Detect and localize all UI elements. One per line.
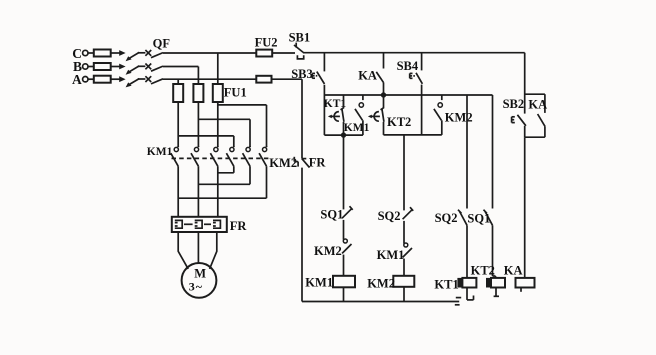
svg-text:KA: KA — [528, 98, 547, 112]
control bottom bus — [302, 301, 459, 303]
svg-text:FU2: FU2 — [255, 35, 278, 49]
svg-text:SB1: SB1 — [289, 30, 311, 44]
coil KT1 — [457, 278, 462, 288]
coil KM2 — [393, 276, 414, 287]
wire drop B to fuse FU1-2 — [197, 67, 199, 85]
svg-text:KM2: KM2 — [269, 156, 297, 170]
wire FR branch lower — [301, 168, 303, 302]
interlock KM1 (NC) — [404, 243, 408, 247]
terminal circle phase C — [83, 50, 88, 55]
wire KM2 c4 to line3 — [233, 166, 235, 173]
wire KA right stub — [544, 94, 546, 113]
KM1 main contact 1 — [177, 146, 179, 147]
pushbutton SB1 (NC stop) — [295, 43, 297, 48]
wire L1 mid — [343, 220, 345, 240]
wire feed KM2 contact 6 — [218, 104, 267, 106]
wire L3 lower — [466, 225, 468, 278]
wire SB3 to rail — [323, 85, 325, 95]
wire KM2 coil to bus — [403, 287, 405, 302]
KM2 main contact 5 — [249, 146, 251, 147]
wire below FU1-3 — [217, 102, 219, 147]
wire feed KM2 contact 5 — [198, 118, 250, 120]
svg-text:KT1: KT1 — [434, 277, 458, 291]
wire C blade to QF — [138, 52, 146, 54]
fuse FU1-2 — [193, 84, 203, 102]
wire KM1 aux to loop bottom — [362, 120, 364, 135]
wire KT1 contact to loop bottom — [343, 122, 345, 135]
svg-text:FR: FR — [230, 219, 248, 233]
wire KM2 aux to mid node — [441, 120, 443, 135]
wire phase B horizontal — [163, 66, 198, 68]
arrow phase C — [119, 50, 125, 56]
FR heater element 1 — [175, 220, 182, 228]
wire phase A horizontal to FU2 lower — [163, 78, 256, 80]
wire below FU1-2 — [197, 102, 199, 147]
wire down to KA coil — [524, 137, 526, 278]
wire C terminal to fuse — [88, 52, 94, 54]
wire C fuse to arrow — [111, 52, 120, 54]
wire SB4 stub — [421, 53, 423, 71]
wire L2 mid — [403, 221, 405, 244]
fuse box phase B — [94, 63, 111, 70]
wire KM2 c5 to line2 — [249, 166, 251, 184]
thermal relay FR box — [172, 217, 227, 232]
wire KA coil stub — [520, 288, 522, 292]
FR heater element 2 — [195, 220, 202, 228]
wire B fuse to arrow — [111, 66, 120, 68]
svg-text:KA: KA — [358, 69, 377, 83]
contact KM1 aux (NO self-hold) — [362, 95, 364, 100]
KM2 main contact 6 — [266, 146, 268, 147]
linkage dashed line — [172, 157, 270, 159]
wire KT2 coil stub — [495, 288, 497, 297]
wire SB2/KA join bottom — [525, 136, 545, 138]
wire FU2 lower to FR branch — [272, 78, 303, 80]
svg-text:KT2: KT2 — [471, 263, 495, 277]
QF fixed contact x mark A — [145, 76, 151, 82]
svg-text:KM1: KM1 — [147, 146, 173, 158]
wire B blade to QF — [138, 65, 146, 67]
wire SB2 lower — [524, 126, 526, 137]
wire FU2 upper to SB1 — [272, 52, 295, 54]
limit switch SQ1 (NO) — [485, 212, 492, 226]
wire KT2 to mid node — [383, 122, 385, 135]
wire A fuse to arrow — [111, 78, 120, 80]
wire rail end down — [492, 95, 494, 209]
wire KA stub — [383, 53, 385, 69]
pushbutton SB3 (NO start) — [317, 72, 325, 84]
limit switch SQ1 (NC) — [342, 209, 351, 218]
KM2 main contact 4 — [233, 146, 235, 147]
wire L1 upper — [343, 135, 345, 209]
arrow phase B — [119, 64, 125, 70]
wire A terminal to fuse — [88, 78, 94, 80]
terminal circle phase A — [83, 77, 88, 82]
limit switch SQ2 (NC) — [403, 210, 412, 219]
svg-text:SQ2: SQ2 — [378, 209, 401, 223]
svg-text:FU1: FU1 — [224, 86, 247, 100]
wire FR to motor 3 — [210, 232, 217, 269]
wire L1 lower — [343, 255, 345, 276]
left loop bottom wire — [324, 134, 363, 136]
svg-text:M: M — [194, 266, 206, 280]
wire KM2 c6 to line1 — [266, 166, 268, 198]
svg-text:SQ1: SQ1 — [467, 212, 490, 226]
wire SB3 stub — [323, 53, 325, 72]
interlock KM2 (NC) — [343, 239, 347, 243]
svg-text:KM1: KM1 — [305, 276, 333, 290]
coil KA — [516, 278, 535, 288]
thermal contact FR (NC) — [293, 157, 295, 162]
svg-text:3~: 3~ — [189, 279, 203, 293]
mid bottom wire — [384, 134, 442, 136]
wire L3 upper — [466, 95, 468, 209]
wire phase C horizontal to FU2 — [163, 52, 256, 54]
svg-text:QF: QF — [153, 37, 171, 51]
wire L2 upper — [403, 135, 405, 211]
svg-text:KM1: KM1 — [344, 122, 370, 134]
fuse FU2 lower — [256, 76, 271, 83]
wire B terminal to fuse — [88, 66, 94, 68]
fuse FU2 upper — [256, 50, 272, 57]
left loop side wire — [323, 95, 325, 135]
svg-text:KA: KA — [504, 263, 523, 277]
limit switch SQ2 (NO) — [460, 212, 467, 226]
QF breaker blade B — [151, 66, 163, 71]
bus end artifact — [456, 297, 461, 299]
contact KM2 aux (NO) — [441, 95, 443, 100]
coil KT2 — [486, 278, 491, 288]
svg-text:SB2: SB2 — [503, 97, 525, 111]
QF fixed contact x mark C — [145, 50, 151, 56]
svg-text:FR: FR — [309, 156, 327, 170]
svg-text:KM1: KM1 — [377, 248, 405, 262]
svg-text:SQ1: SQ1 — [320, 208, 343, 222]
wire KM1 c1 down to FR — [177, 166, 179, 217]
delayed contact KT2 — [383, 95, 385, 108]
contact KA (NO) — [376, 72, 383, 83]
fuse FU1-3 — [213, 84, 223, 102]
control bus top — [303, 52, 525, 54]
junction loop bottom — [341, 132, 346, 137]
motor M — [182, 263, 217, 298]
wire L4 lower — [492, 225, 494, 276]
pushbutton SB4 (NO) — [416, 73, 422, 84]
contact KA right (NO) — [538, 114, 546, 127]
svg-text:A: A — [72, 72, 82, 87]
wire drop A to fuse FU1-1 — [177, 79, 179, 84]
QF fixed contact x mark B — [145, 64, 151, 70]
wire feed KM2 contact 4 — [178, 135, 234, 137]
svg-text:KT2: KT2 — [387, 115, 411, 129]
wire KA to rail — [383, 83, 385, 95]
QF breaker blade C — [151, 53, 163, 58]
wire SB2 branch top — [525, 93, 545, 95]
fuse FU1-1 — [173, 84, 183, 102]
svg-text:SB3: SB3 — [291, 67, 313, 81]
KM1 main contact 2 — [197, 146, 199, 147]
wire FR to motor 1 — [178, 232, 188, 269]
wire SB4 down to mid node — [421, 85, 423, 135]
svg-text:KM2: KM2 — [367, 276, 395, 290]
isolator blade C — [128, 52, 139, 59]
svg-text:KM2: KM2 — [314, 244, 342, 258]
corner bus right — [524, 53, 526, 114]
terminal circle phase B — [83, 64, 88, 69]
svg-text:KM2: KM2 — [445, 110, 473, 124]
FR heater element 3 — [213, 220, 220, 228]
wire A blade to QF — [138, 78, 146, 80]
wire below FU1-1 — [177, 102, 179, 147]
fuse box phase A — [94, 76, 111, 83]
isolator blade B — [128, 66, 139, 73]
wire L2 lower — [403, 259, 405, 276]
wire FR branch upper — [301, 79, 303, 158]
wire KM1 c3 down to FR — [217, 166, 219, 217]
wire FR to motor 2 — [197, 232, 199, 263]
pushbutton SB2 (NC) — [517, 115, 526, 126]
svg-text:SQ2: SQ2 — [435, 211, 458, 225]
wire KT1 coil stub — [466, 288, 468, 300]
wire KM1 coil to bus — [343, 287, 345, 301]
wire KM1 c2 down to FR — [197, 166, 199, 217]
arrow phase A — [119, 76, 125, 82]
svg-text:SB4: SB4 — [397, 59, 419, 73]
FR element dashes — [184, 223, 193, 225]
isolator blade A — [128, 79, 139, 86]
wire drop C to fuse FU1-3 — [217, 53, 219, 84]
fuse box phase C — [94, 50, 111, 57]
junction rail-KT2 — [381, 92, 386, 97]
control rail — [324, 94, 492, 96]
wire KA right lower — [544, 127, 546, 138]
delayed contact KT1 — [343, 95, 345, 108]
QF breaker blade A — [151, 79, 163, 84]
KM1 main contact 3 — [217, 146, 219, 147]
coil KM1 — [333, 276, 355, 288]
